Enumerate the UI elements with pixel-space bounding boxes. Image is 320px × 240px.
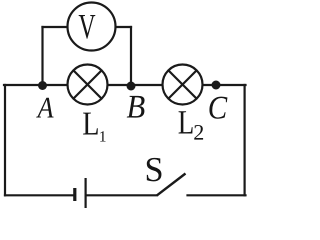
- node A junction dot: [38, 81, 47, 90]
- wire node B to L2: [131, 84, 163, 86]
- wire L2 to node C to top-right corner: [203, 84, 246, 86]
- battery BT1 positive plate: [85, 178, 87, 208]
- voltmeter U1 label V: [79, 15, 96, 39]
- wire right vertical: [244, 85, 246, 195]
- node C junction dot: [212, 81, 221, 90]
- label lamp L2 subscript 2: [194, 125, 203, 140]
- wire L1 to node B: [108, 84, 132, 86]
- label switch S: [147, 158, 162, 182]
- wire voltmeter branch vertical from node A: [41, 27, 43, 85]
- battery BT1 negative plate: [73, 188, 76, 201]
- wire left segment of main line (left corner to L1): [4, 84, 68, 86]
- wire voltmeter branch vertical down to node B: [130, 27, 132, 85]
- label node A: [36, 98, 53, 118]
- label lamp L2 letter L: [179, 111, 193, 133]
- lamp L1: [68, 65, 108, 105]
- label lamp L1 subscript 1: [100, 131, 105, 141]
- label node B: [127, 96, 145, 118]
- wire bottom right (switch to right corner): [188, 194, 246, 196]
- lamp L2: [163, 65, 203, 105]
- label node C: [209, 97, 227, 119]
- wire left vertical: [4, 85, 6, 195]
- wire battery to switch: [87, 194, 158, 196]
- label lamp L1 letter L: [83, 113, 98, 135]
- node B junction dot: [127, 82, 136, 91]
- wire bottom left (left corner to battery): [5, 194, 74, 196]
- wire voltmeter branch top right horizontal: [116, 26, 132, 28]
- switch S blade: [157, 174, 186, 196]
- voltmeter U1 circle: [68, 3, 116, 51]
- wire voltmeter branch top left horizontal: [43, 26, 68, 28]
